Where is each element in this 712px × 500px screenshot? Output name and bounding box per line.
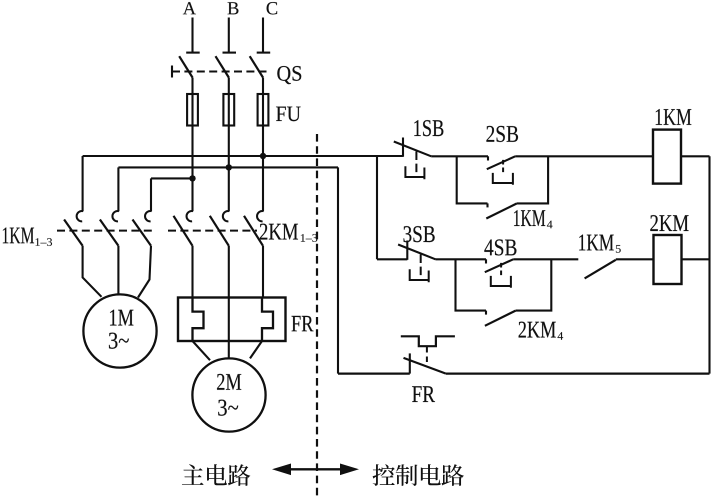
phase label A: [183, 2, 196, 14]
wire 2KM pole3 to FR: [262, 246, 264, 298]
thermal relay FR box: [178, 298, 286, 342]
wire 4SB to 1KM5: [513, 258, 578, 260]
wire 2KM pole2 to FR: [228, 246, 230, 298]
wire drop to contactor 1KM pole 2: [117, 167, 119, 211]
pushbutton 2SB button head: [493, 173, 513, 185]
motor 1M: [83, 294, 156, 367]
FR heater element phase A: [193, 298, 204, 342]
wire 1SB to 2SB: [431, 155, 488, 157]
wire 1KM4 branch right: [517, 156, 548, 203]
wire 2KM pole1 to FR: [191, 246, 193, 298]
pushbutton 1SB (NC) contact tick: [402, 138, 404, 157]
label 3SB: [404, 226, 435, 242]
wire drop to contactor 1KM pole 3: [150, 178, 152, 211]
wire 2KM4 branch right: [516, 259, 552, 310]
pushbutton 4SB blade: [485, 259, 513, 272]
thermal contact FR blade: [404, 358, 446, 374]
label control circuit (Chinese): [373, 464, 464, 486]
node: C phase joins bus L1: [260, 153, 266, 159]
coil 2KM: [654, 235, 682, 284]
wire phase B: QS to 2KM contact: [228, 78, 230, 212]
pushbutton 2SB (NO) left tick: [487, 156, 489, 160]
wire bus L2 (B phase) to control circuit: [118, 166, 338, 168]
wire FR to motor 2M left: [193, 341, 211, 360]
FR heater element phase C: [262, 298, 273, 342]
thermal contact FR (NC) tick: [409, 353, 411, 373]
pushbutton 3SB (NC) contact tick: [406, 241, 408, 260]
wire coil 1KM to right rail: [681, 155, 710, 157]
phase label B: [228, 2, 239, 14]
contactor 1KM main contact 1: [64, 211, 83, 246]
node: B phase joins bus L2: [226, 164, 232, 170]
label 2KM: [650, 215, 688, 231]
pushbutton 4SB (NO) left tick: [485, 259, 487, 263]
switch QS pole C blade: [250, 56, 263, 77]
phase C incoming line: [257, 18, 271, 53]
label 1KM: [656, 109, 692, 125]
switch QS pole A blade: [179, 56, 192, 77]
dashed divider between main and control circuit: [316, 134, 318, 496]
contact 1KM5 (NO interlock): [585, 260, 616, 279]
node: A phase joins bus L3: [189, 175, 195, 181]
wire drop to contactor 1KM pole 1: [82, 156, 84, 211]
contactor 1KM linkage (dashed): [57, 230, 153, 232]
pushbutton 4SB button head: [491, 276, 511, 288]
motor 2M: [192, 358, 265, 431]
switch QS label: [277, 66, 301, 84]
wire 1KM pole2 to motor 1M: [117, 246, 119, 295]
label 1KM5: [579, 235, 621, 253]
pushbutton 1SB blade: [394, 142, 431, 157]
label FR (heater): [292, 316, 314, 331]
pushbutton 3SB button head: [410, 269, 429, 282]
wire control left rail (rows 1-2): [377, 156, 407, 259]
switch QS pole B blade: [216, 56, 229, 77]
contact 2KM4 (NO, self-holding): [485, 311, 516, 326]
contactor 1KM main contact 3: [133, 211, 152, 246]
wire FR to motor 2M right: [250, 341, 262, 358]
wire phase C: QS to 2KM contact: [262, 78, 264, 212]
pushbutton 1SB button head: [405, 166, 424, 179]
thermal contact FR reset bracket: [401, 336, 455, 346]
wire FR to motor 2M middle: [228, 341, 230, 359]
wire 1KM5 to coil 2KM: [616, 258, 654, 260]
phase label C: [267, 2, 278, 14]
wire 1KM pole1 to motor 1M: [83, 246, 102, 297]
wire 1KM4 branch left: [457, 156, 488, 203]
pushbutton 2SB blade: [487, 156, 515, 169]
wire 2SB to coil 1KM: [515, 155, 653, 157]
label 1KM4: [514, 210, 552, 228]
phase A incoming line: [186, 18, 200, 53]
wire 2KM4 branch left: [456, 259, 487, 310]
label 2KM1-3: [260, 224, 318, 242]
wire bottom rail right: [446, 372, 710, 374]
wire bus L1 (C phase) to control circuit: [83, 155, 403, 157]
wire 3SB to 4SB: [436, 258, 487, 260]
label 4SB: [484, 239, 516, 255]
double arrow: [272, 464, 359, 476]
FR pass-through wire phase B: [228, 298, 230, 342]
label FR (contact): [412, 386, 435, 402]
switch QS linkage (dashed) with handle tick: [172, 66, 267, 78]
wire bus L3 (A phase): [151, 177, 193, 179]
fuse FU C: [258, 94, 269, 126]
pushbutton 3SB actuator stem: [420, 255, 422, 276]
fuse FU B: [223, 94, 234, 126]
wire right rail: [708, 156, 710, 373]
wire control feeder down from bus L2: [337, 167, 339, 373]
contactor 2KM main contact 1: [174, 211, 194, 246]
label 2SB: [486, 126, 518, 142]
wire bottom rail left: [338, 372, 410, 374]
pushbutton 4SB actuator stem: [500, 263, 502, 276]
contactor 2KM linkage (dashed): [168, 230, 257, 232]
coil 1KM: [653, 130, 681, 184]
label 1SB: [414, 120, 443, 136]
pushbutton 2SB actuator stem: [502, 160, 504, 173]
label main circuit (Chinese): [182, 464, 250, 486]
contactor 2KM main contact 2: [210, 211, 230, 246]
pushbutton 1SB actuator stem: [415, 152, 417, 173]
fuse FU A: [187, 94, 198, 126]
fuse FU label: [276, 107, 301, 122]
thermal contact FR stem (dashed): [426, 347, 428, 365]
pushbutton 3SB blade: [398, 245, 435, 260]
wire phase A: QS to 2KM contact: [191, 78, 193, 212]
wire coil 2KM to right rail: [682, 258, 710, 260]
contactor 1KM main contact 2: [100, 211, 119, 246]
contactor 2KM main contact 3: [244, 211, 264, 246]
label 1KM1-3: [3, 227, 52, 245]
wire 1KM pole3 to motor 1M: [138, 246, 151, 298]
label 2KM4: [519, 322, 564, 340]
phase B incoming line: [223, 18, 237, 53]
contact 1KM4 (NO, self-holding): [486, 203, 517, 218]
